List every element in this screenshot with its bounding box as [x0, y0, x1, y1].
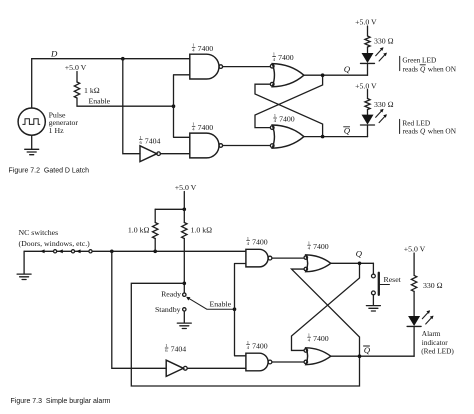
svg-text:4: 4	[192, 48, 195, 53]
svg-text:Reset: Reset	[384, 275, 402, 284]
svg-text:+5.0 V: +5.0 V	[355, 82, 377, 91]
svg-text:7400: 7400	[198, 44, 214, 53]
svg-text:NC switches: NC switches	[19, 228, 59, 237]
svg-text:1.0 kΩ: 1.0 kΩ	[128, 225, 150, 234]
svg-text:when ON: when ON	[428, 127, 457, 136]
svg-text:Ready: Ready	[161, 290, 181, 299]
svg-text:+5.0 V: +5.0 V	[355, 17, 377, 26]
svg-text:1 Hz: 1 Hz	[49, 126, 64, 135]
svg-text:Figure 7.2 Gated D Latch: Figure 7.2 Gated D Latch	[9, 167, 90, 174]
svg-text:Green LED: Green LED	[402, 55, 436, 64]
svg-text:7404: 7404	[171, 345, 187, 354]
svg-text:(Doors, windows, etc.): (Doors, windows, etc.)	[19, 239, 91, 248]
svg-text:1.0 kΩ: 1.0 kΩ	[191, 225, 213, 234]
svg-text:7400: 7400	[252, 237, 268, 246]
svg-text:Q: Q	[420, 64, 426, 73]
svg-text:330 Ω: 330 Ω	[374, 100, 394, 109]
svg-text:reads: reads	[403, 127, 419, 136]
svg-text:7404: 7404	[145, 136, 161, 145]
svg-text:reads: reads	[403, 64, 419, 73]
svg-text:Q: Q	[344, 64, 351, 74]
svg-text:+5.0 V: +5.0 V	[65, 63, 87, 72]
svg-text:Enable: Enable	[210, 299, 232, 308]
svg-text:D: D	[50, 49, 58, 59]
svg-text:Figure 7.3 Simple burglar ala: Figure 7.3 Simple burglar alarm	[11, 398, 111, 405]
svg-text:6: 6	[140, 140, 143, 145]
svg-text:Enable: Enable	[89, 96, 111, 105]
svg-text:6: 6	[165, 348, 168, 353]
svg-text:Q: Q	[356, 248, 363, 258]
svg-text:+5.0 V: +5.0 V	[175, 183, 197, 192]
svg-text:+5.0 V: +5.0 V	[404, 244, 426, 253]
svg-text:Standby: Standby	[155, 305, 181, 314]
svg-text:(Red LED): (Red LED)	[421, 347, 454, 356]
svg-text:when ON: when ON	[428, 64, 457, 73]
svg-text:Q: Q	[420, 127, 426, 136]
svg-text:Alarm: Alarm	[422, 329, 441, 338]
svg-text:330 Ω: 330 Ω	[374, 37, 394, 46]
svg-text:4: 4	[247, 241, 250, 246]
svg-text:330 Ω: 330 Ω	[423, 281, 443, 290]
svg-text:1 kΩ: 1 kΩ	[84, 86, 100, 95]
